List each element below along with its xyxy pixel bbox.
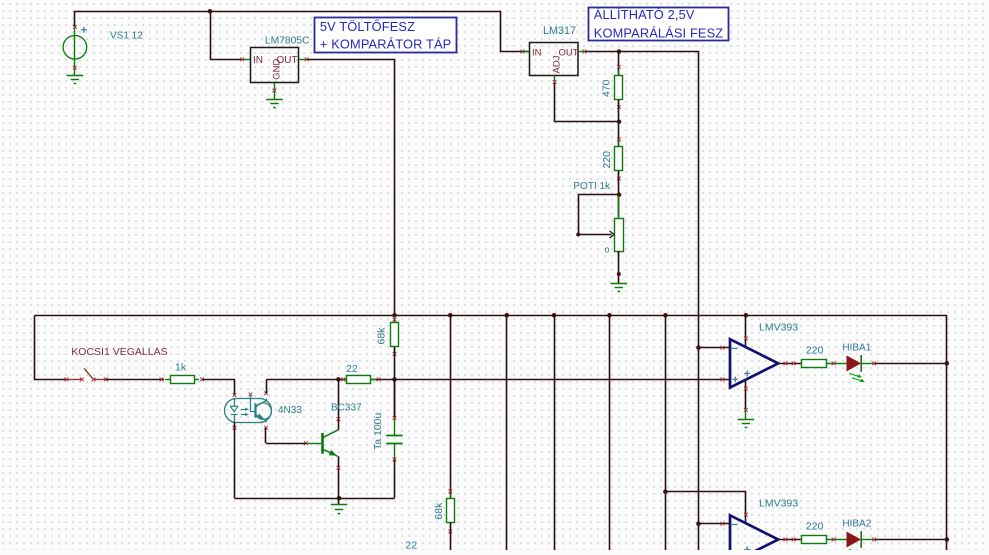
svg-text:KOCSI1 VEGALLAS: KOCSI1 VEGALLAS — [71, 346, 167, 358]
svg-text:LM7805C: LM7805C — [265, 35, 310, 46]
svg-text:+ KOMPARÁTOR TÁP: + KOMPARÁTOR TÁP — [320, 36, 451, 51]
svg-text:4N33: 4N33 — [278, 405, 302, 416]
svg-text:LMV393: LMV393 — [759, 321, 798, 333]
svg-text:BC337: BC337 — [331, 403, 362, 414]
svg-text:LMV393: LMV393 — [759, 497, 798, 509]
svg-text:68k: 68k — [376, 327, 388, 345]
svg-text:o: o — [605, 245, 610, 255]
svg-text:220: 220 — [806, 344, 824, 356]
svg-text:1k: 1k — [175, 361, 187, 373]
svg-text:VS1 12: VS1 12 — [110, 31, 143, 42]
svg-text:22: 22 — [405, 539, 417, 550]
svg-text:ADJ: ADJ — [552, 55, 563, 73]
svg-text:ÁLLÍTHATÓ 2,5V: ÁLLÍTHATÓ 2,5V — [594, 7, 695, 22]
svg-text:220: 220 — [806, 520, 824, 532]
svg-text:HIBA1: HIBA1 — [842, 342, 871, 353]
svg-text:22: 22 — [346, 363, 358, 375]
svg-text:LM317: LM317 — [543, 25, 576, 37]
svg-text:Ta 100u: Ta 100u — [372, 412, 384, 450]
svg-text:220: 220 — [601, 151, 613, 169]
svg-text:IN: IN — [532, 48, 542, 59]
svg-text:HIBA2: HIBA2 — [842, 519, 871, 530]
svg-text:5V TÖLTŐFESZ: 5V TÖLTŐFESZ — [320, 19, 415, 34]
svg-text:IN: IN — [253, 55, 263, 66]
svg-text:POTI 1k: POTI 1k — [573, 181, 611, 192]
svg-text:470: 470 — [601, 79, 613, 97]
svg-text:GND: GND — [271, 59, 282, 80]
svg-text:68k: 68k — [433, 502, 445, 520]
svg-text:KOMPARÁLÁSI FESZ: KOMPARÁLÁSI FESZ — [594, 25, 723, 40]
